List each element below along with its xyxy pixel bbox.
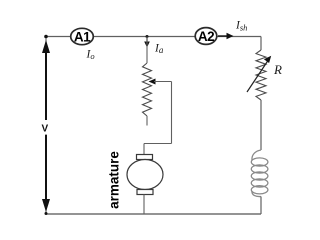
inductor L (shunt field coil) — [251, 150, 268, 197]
svg-text:A2: A2 — [198, 29, 214, 44]
wire into armature top brush — [143, 144, 145, 155]
svg-text:Ia: Ia — [154, 43, 164, 56]
ammeter A1 — [71, 28, 94, 44]
armature bottom brush — [137, 190, 153, 195]
svg-text:Io: Io — [86, 49, 95, 62]
wire tap horizontal to armature — [144, 143, 172, 145]
svg-text:armature: armature — [107, 151, 122, 209]
resistor open lead below — [146, 116, 148, 126]
wire right vertical lower — [260, 197, 262, 215]
voltage arrow V down — [42, 135, 50, 212]
wire left vertical upper — [45, 37, 47, 121]
wire armature branch top — [146, 37, 148, 64]
svg-text:R: R — [273, 62, 282, 77]
ammeter A2 — [195, 28, 217, 45]
wire left vertical lower — [45, 134, 47, 214]
wire right vertical upper — [260, 37, 262, 51]
voltage arrow V up — [42, 40, 50, 120]
svg-text:V: V — [42, 124, 49, 135]
rheostat R zigzag — [256, 50, 266, 100]
svg-text:Ish: Ish — [235, 20, 247, 33]
wire top horizontal — [46, 36, 261, 38]
wiper tap arrow into resistor — [149, 79, 172, 85]
Ish current arrow right — [218, 33, 234, 39]
svg-text:A1: A1 — [74, 29, 91, 44]
wire bottom horizontal — [46, 213, 261, 215]
node junction bottom-left — [45, 212, 48, 215]
node junction top-left — [44, 35, 48, 39]
wire tap down — [171, 82, 173, 144]
armature body — [127, 160, 163, 190]
node junction armature branch — [146, 35, 149, 38]
wire right vertical middle — [260, 100, 262, 150]
armature top brush — [137, 155, 153, 160]
wire armature to bottom — [143, 195, 145, 215]
Ia current arrow down — [144, 38, 150, 48]
armature series resistor zigzag — [143, 63, 152, 116]
rheostat wiper arrow — [247, 56, 271, 92]
